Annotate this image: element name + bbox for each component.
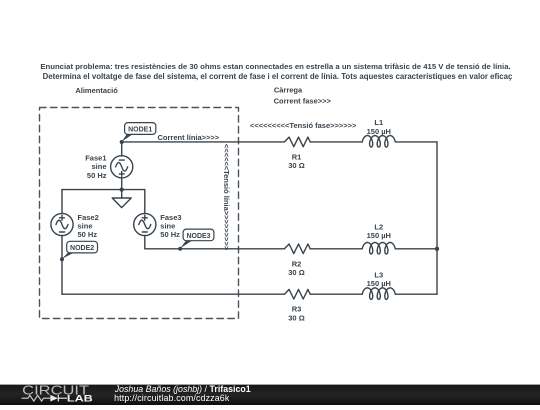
node dot NODE1 bbox=[120, 140, 124, 144]
svg-text:150 µH: 150 µH bbox=[367, 127, 391, 136]
inductor L3 bbox=[362, 288, 395, 300]
svg-text:50 Hz: 50 Hz bbox=[160, 230, 180, 239]
svg-text:NODE1: NODE1 bbox=[128, 127, 152, 134]
NODE1 flag pointer bbox=[122, 134, 133, 142]
svg-text:150 µH: 150 µH bbox=[367, 231, 391, 240]
svg-text:Alimentació: Alimentació bbox=[75, 86, 118, 95]
wire: R2 to L2 bbox=[310, 248, 362, 250]
wire: V3 bottom stub bbox=[144, 235, 146, 248]
svg-text:Corrent línia>>>>: Corrent línia>>>> bbox=[158, 133, 220, 142]
svg-text:<<<<<<<<<Tensió fase>>>>>>: <<<<<<<<<Tensió fase>>>>>> bbox=[250, 121, 357, 130]
svg-text:50 Hz: 50 Hz bbox=[78, 230, 98, 239]
NODE1 label box bbox=[125, 123, 156, 135]
wire: V1 bottom to junction bbox=[121, 178, 123, 190]
svg-text:30 Ω: 30 Ω bbox=[288, 161, 304, 170]
voltage source V3 (Fase3) bbox=[134, 213, 156, 235]
wire: V1 top stub bbox=[121, 142, 123, 156]
svg-text:LAB: LAB bbox=[67, 394, 93, 404]
wire: L1 to right rail bbox=[395, 141, 437, 143]
svg-text:Càrrega: Càrrega bbox=[274, 85, 303, 94]
wire: R3 to L3 bbox=[310, 293, 362, 295]
wire: bottom row (V2 loop to R3) bbox=[62, 293, 284, 295]
footer bar bbox=[0, 0, 1, 1]
logo wire squiggle with resistor bbox=[22, 395, 51, 401]
logo diode bbox=[50, 395, 58, 402]
svg-text:http://circuitlab.com/cdzza6k: http://circuitlab.com/cdzza6k bbox=[114, 393, 230, 403]
svg-text:R2: R2 bbox=[292, 259, 302, 268]
NODE2 label box bbox=[67, 241, 98, 253]
svg-text:30 Ω: 30 Ω bbox=[288, 314, 304, 323]
svg-text:R1: R1 bbox=[292, 152, 302, 161]
svg-text:sine: sine bbox=[91, 162, 106, 171]
svg-text:R3: R3 bbox=[292, 305, 302, 314]
resistor R3 bbox=[284, 289, 310, 299]
resistor R1 bbox=[284, 137, 310, 147]
svg-text:Fase1: Fase1 bbox=[85, 153, 106, 162]
junction dot below V1 bbox=[120, 187, 124, 191]
wire: middle row (V3 to R2) bbox=[145, 248, 285, 250]
svg-text:Determina el voltatge de fase: Determina el voltatge de fase del sistem… bbox=[43, 72, 513, 81]
svg-text:Corrent fase>>>: Corrent fase>>> bbox=[274, 97, 332, 106]
ground bbox=[112, 198, 131, 208]
inductor L2 bbox=[362, 242, 395, 254]
svg-text:150 µH: 150 µH bbox=[367, 279, 391, 288]
svg-text:Enunciat problema: tres resist: Enunciat problema: tres resistències de … bbox=[40, 62, 510, 71]
svg-text:30 Ω: 30 Ω bbox=[288, 268, 304, 277]
NODE2 flag pointer bbox=[62, 253, 74, 259]
wire: ground stub bbox=[121, 190, 123, 198]
svg-text:NODE2: NODE2 bbox=[70, 245, 94, 252]
wire: L3 to right rail bbox=[395, 293, 437, 295]
dashed box (Alimentacio) bbox=[40, 108, 239, 319]
voltage source V1 (Fase1) bbox=[111, 156, 133, 178]
inductor L1 bbox=[362, 136, 395, 148]
wire: junction horizontal to V2/V3 branches bbox=[62, 189, 145, 191]
wire: right branch down to V3 bbox=[144, 190, 146, 214]
node dot NODE3 bbox=[178, 247, 182, 251]
resistor R2 bbox=[284, 244, 310, 254]
wire: L2 to right rail bbox=[395, 248, 437, 250]
svg-text:50 Hz: 50 Hz bbox=[87, 171, 107, 180]
wire: left branch down to V2 bbox=[61, 190, 63, 214]
svg-text:<<<<<<Tensió línia>>>>>>>>>: <<<<<<Tensió línia>>>>>>>>> bbox=[222, 144, 231, 251]
NODE3 flag pointer bbox=[180, 241, 192, 249]
svg-text:NODE3: NODE3 bbox=[186, 233, 210, 240]
voltage source V2 (Fase2) bbox=[51, 213, 73, 235]
junction on right rail bbox=[435, 247, 439, 251]
node dot NODE2 bbox=[60, 257, 64, 261]
wire: right rail vertical bbox=[436, 142, 438, 294]
NODE3 label box bbox=[183, 229, 214, 241]
wire: V2 bottom to bottom rail bbox=[61, 235, 63, 294]
wire: R1 to L1 bbox=[310, 141, 362, 143]
wire: top row horizontal (node1 to R1) bbox=[122, 141, 285, 143]
